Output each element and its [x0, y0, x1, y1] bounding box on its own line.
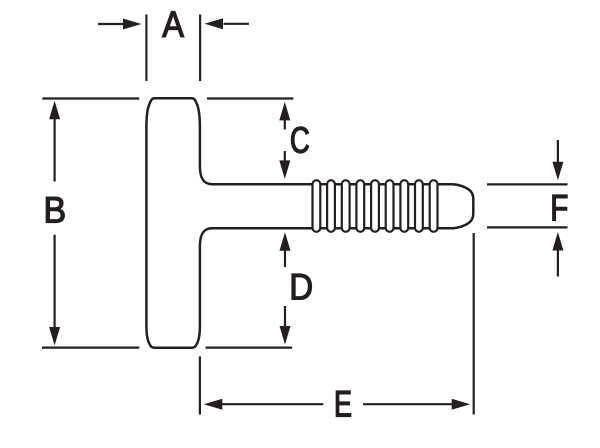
label F [553, 195, 567, 220]
dim B upper line [53, 118, 55, 182]
dimension linework [42, 15, 568, 415]
label C [291, 127, 308, 153]
top extension line left (B) [42, 97, 139, 99]
filled arrowheads [49, 18, 563, 409]
grip rib 1 [313, 180, 321, 232]
T-handle body outline (handle + shaft + bullet tip) [146, 98, 473, 347]
arrow D top (points up) [280, 232, 291, 251]
grip rib 2 [327, 180, 335, 232]
grip rib 7 [400, 180, 408, 232]
label B [46, 197, 64, 222]
dim C upper line [284, 118, 286, 130]
label D [292, 274, 312, 299]
grip rib 6 [386, 180, 394, 232]
arrow A left (points right) [123, 19, 142, 30]
dim F bottom extension line [487, 226, 568, 228]
arrow C top (points up) [279, 102, 290, 121]
dim A left leader line [98, 23, 125, 25]
arrow E right (points right) [452, 399, 471, 410]
label A [162, 11, 184, 36]
grip rib 4 [356, 180, 364, 232]
bottom extension line right (D) [206, 347, 293, 349]
arrow F bottom (points up) [552, 232, 563, 251]
dim A right leader line [224, 23, 250, 25]
grip rib 8 [415, 180, 423, 232]
dim D lower line [284, 306, 286, 329]
top extension line right (C) [207, 97, 293, 99]
arrow D bottom (points down) [280, 326, 291, 345]
label E [336, 391, 350, 416]
dim F lower leader line [557, 248, 559, 277]
dim E right line [363, 403, 453, 405]
dim E left line [221, 403, 323, 405]
dim F upper leader line [557, 140, 559, 165]
arrow B bottom (points down) [49, 327, 60, 346]
dim B lower line [53, 235, 55, 327]
bottom extension line left (B) [42, 347, 139, 349]
arrow E left (points left) [204, 399, 223, 410]
arrow B top (points up) [49, 101, 60, 120]
dim A right extension line [199, 15, 201, 82]
dim C lower line [284, 151, 286, 163]
grip rib 9 [430, 180, 438, 232]
grip rib 3 [342, 180, 350, 232]
dim E left extension line [199, 356, 201, 414]
dim F top extension line [487, 183, 568, 185]
dim A left extension line [145, 15, 147, 82]
arrow C bottom (points down) [279, 160, 290, 179]
grip rib 5 [371, 180, 379, 232]
arrow F top (points down) [552, 162, 563, 181]
dim D upper line [284, 248, 286, 267]
dim E right extension line [473, 233, 475, 415]
arrow A right (points left) [205, 18, 224, 29]
